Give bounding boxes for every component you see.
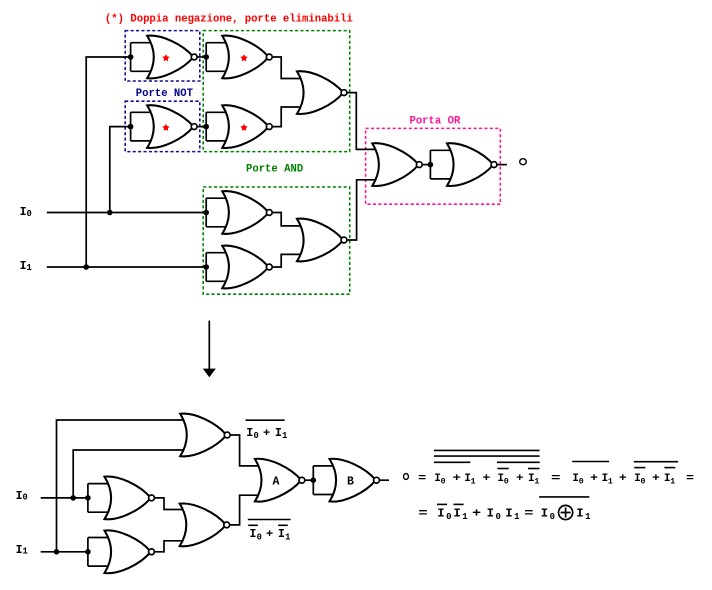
junction dot I0 vertical — [70, 495, 76, 501]
svg-text:I: I — [505, 507, 512, 521]
NOR gate U3 (double negation, top) bracket — [206, 43, 227, 72]
svg-text:Porte NOT: Porte NOT — [136, 88, 194, 100]
box: porte AND green box (lower group) — [203, 187, 350, 294]
wire: I1 up to gate1 top input — [57, 420, 186, 552]
wire: U5 output down to U6 top input — [344, 93, 377, 150]
svg-text:I: I — [437, 507, 444, 521]
svg-text:0: 0 — [23, 493, 28, 503]
svg-text:1: 1 — [285, 532, 290, 542]
svg-text:=: = — [686, 473, 694, 485]
wire: I0 horizontal — [47, 212, 206, 214]
svg-text:+: + — [652, 473, 660, 485]
svg-text:1: 1 — [534, 477, 539, 486]
NOR gate U8 body — [222, 246, 268, 289]
wire: U9 output up to U6 bottom input — [344, 180, 377, 240]
wire: U4 output to U5 bottom input — [269, 107, 302, 127]
wire: I1 up to NOT gate U1 — [86, 57, 130, 267]
svg-text:=: = — [524, 507, 533, 521]
label: output O (bottom circuit) — [404, 474, 409, 480]
svg-text:1: 1 — [514, 512, 520, 522]
wire: gate3 output to gate4 bottom input — [152, 541, 185, 552]
svg-text:+: + — [472, 507, 481, 521]
svg-text:0: 0 — [641, 477, 646, 486]
svg-text:=: = — [418, 507, 427, 521]
svg-text:+: + — [590, 473, 598, 485]
svg-text:I: I — [278, 527, 285, 541]
svg-text:Porta OR: Porta OR — [409, 115, 461, 127]
svg-text:+: + — [453, 473, 462, 485]
NOR gate U3 body — [222, 36, 268, 79]
svg-text:A: A — [272, 475, 279, 488]
svg-text:+: + — [263, 428, 271, 440]
node dot gate2 input — [85, 495, 91, 501]
node dot at U3 input — [203, 54, 209, 60]
box: porta OR pink box — [366, 128, 501, 204]
svg-text:0: 0 — [550, 512, 555, 522]
svg-text:I: I — [487, 507, 494, 521]
wire: I0 up to NOT gate U2 — [110, 127, 131, 213]
NOR gate U1 body — [147, 36, 193, 79]
node dot gate3 input — [85, 549, 91, 555]
svg-text:I: I — [249, 527, 256, 541]
NOR gate U10 bracket — [430, 150, 452, 179]
node dot at U8 input — [203, 264, 209, 270]
NOR gate 1 body (I0+I1) — [180, 414, 226, 457]
NOR gate U8 bracket (lower group, bottom) — [206, 253, 227, 282]
node dot at U2 input — [128, 124, 134, 130]
junction dot on I1 — [83, 264, 89, 270]
svg-text:1: 1 — [462, 512, 468, 522]
svg-text:+: + — [619, 473, 627, 485]
svg-text:I: I — [275, 426, 282, 440]
node dot at U1 input — [128, 54, 134, 60]
svg-text:I: I — [246, 426, 253, 440]
svg-text:I: I — [453, 507, 460, 521]
NOR gate U7 body — [222, 191, 268, 234]
wire: U8 output to U9 bottom input — [269, 254, 302, 267]
wire: U2 output to U4 node — [194, 126, 206, 128]
svg-text:0: 0 — [496, 512, 501, 522]
wire: U3 output to U5 top input — [269, 57, 302, 79]
NOR gate 2 bracket (NOT I0) — [88, 484, 110, 513]
svg-text:0: 0 — [579, 477, 584, 486]
svg-text:1: 1 — [608, 477, 613, 486]
svg-text:B: B — [347, 475, 354, 488]
wire: I0 up to gate1 bottom input — [73, 450, 185, 498]
label: output O (top circuit) — [520, 159, 527, 165]
junction dot I1 vertical — [54, 549, 60, 555]
NOR gate 4 body (I0bar+I1bar) — [180, 503, 226, 546]
svg-text:(*) Doppia negazione, porte el: (*) Doppia negazione, porte eliminabili — [105, 13, 353, 25]
svg-text:+: + — [482, 473, 490, 485]
NOR gate U10 body — [447, 143, 493, 186]
node dot at U4 input — [203, 124, 209, 130]
NOR gate U9 body (lower group output) — [297, 219, 343, 262]
NOR gate U1 (NOT, top) tied-input bracket — [131, 43, 153, 72]
NOR gate A body — [255, 459, 301, 502]
svg-text:0: 0 — [441, 477, 446, 486]
NOR gate U2 body — [147, 105, 193, 148]
node dot at U7 input — [203, 210, 209, 216]
arrow between circuits — [208, 321, 210, 369]
NOR gate U5 body (upper group output) — [297, 71, 343, 114]
svg-text:+: + — [516, 473, 524, 485]
svg-text:0: 0 — [254, 431, 259, 441]
wire: gate B output stub — [377, 479, 390, 481]
xor symbol — [559, 505, 573, 519]
wire: U6 output to U10 node — [419, 164, 430, 166]
NOR gate 2 body — [105, 476, 151, 519]
svg-text:=: = — [418, 473, 426, 485]
svg-text:+: + — [266, 529, 274, 541]
wire: U7 output to U9 top input — [269, 213, 302, 226]
wire: gate A output to gate B node — [302, 479, 313, 481]
wire: I1 horizontal — [47, 266, 206, 268]
node dot at U10 input — [428, 162, 434, 168]
svg-text:1: 1 — [23, 547, 28, 557]
wire: U10 output stub — [494, 164, 507, 166]
svg-text:0: 0 — [27, 209, 32, 219]
svg-text:1: 1 — [282, 431, 287, 441]
svg-text:1: 1 — [27, 263, 32, 273]
wire: gate4 output up to gate A bottom input — [227, 495, 260, 525]
NOR gate U2 (NOT, bottom) tied-input bracket — [131, 112, 153, 141]
box: porte NOT blue box (lower) — [125, 101, 200, 151]
wire: gate2 output to gate4 top input — [152, 498, 185, 510]
svg-text:0: 0 — [504, 477, 509, 486]
NOR gate 3 body — [105, 530, 151, 573]
NOR gate U4 (double negation, bottom) bracket — [206, 112, 227, 141]
NOR gate U4 body — [222, 105, 268, 148]
NOR gate B bracket — [313, 466, 334, 495]
junction dot on I0 — [107, 210, 113, 216]
svg-text:1: 1 — [471, 477, 476, 486]
svg-text:0: 0 — [446, 512, 451, 522]
NOR gate U7 bracket (lower group, top) — [206, 198, 227, 227]
box: porte AND green box (upper group) — [203, 31, 350, 152]
NOR gate 3 bracket (NOT I1) — [88, 538, 110, 567]
NOR gate B body — [330, 459, 376, 502]
node dot gate B input — [311, 477, 317, 483]
wire: I0 horizontal (bottom) — [41, 497, 88, 499]
svg-text:1: 1 — [585, 512, 591, 522]
wire: gate1 output down to gate A top input — [227, 435, 260, 466]
svg-text:0: 0 — [257, 532, 262, 542]
box: doppia negazione blue box (upper) — [125, 31, 200, 81]
svg-text:I: I — [576, 507, 583, 521]
wire: I1 horizontal (bottom) — [41, 551, 88, 553]
wire: U1 output to U3 node — [194, 56, 206, 58]
svg-text:Porte AND: Porte AND — [246, 164, 303, 176]
svg-text:=: = — [551, 473, 561, 485]
NOR gate U6 body — [372, 143, 418, 186]
svg-text:I: I — [541, 507, 548, 521]
svg-text:1: 1 — [670, 477, 675, 486]
